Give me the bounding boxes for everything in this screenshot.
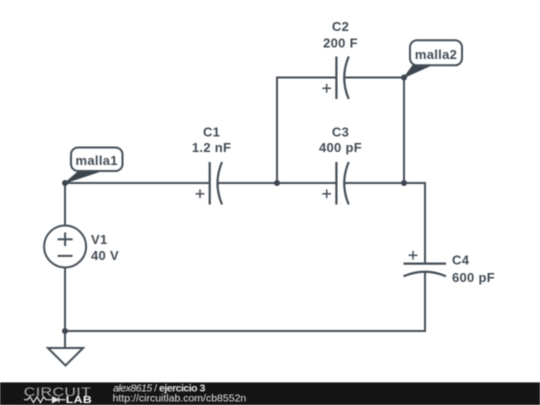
flag malla2 tail <box>404 65 431 77</box>
svg-text:C4: C4 <box>452 252 470 267</box>
wire bottom horizontal <box>65 330 426 332</box>
svg-text:C1: C1 <box>203 125 220 140</box>
node junction C1/C3 <box>274 180 280 186</box>
wire top-right segment (C2 right lead) <box>344 77 404 79</box>
footer logo resistor-diode <box>24 397 66 403</box>
flag malla1 tail <box>65 171 101 183</box>
node dot malla1 <box>62 180 68 186</box>
svg-text:C3: C3 <box>332 125 349 140</box>
wire C4 bottom lead to corner <box>424 272 426 332</box>
wire left vertical of top loop <box>276 77 278 184</box>
ground <box>48 348 83 366</box>
capacitor C2 <box>322 57 348 100</box>
footer bar <box>0 382 540 405</box>
wire C3 right lead to junction <box>344 182 404 184</box>
flag malla1 box <box>71 148 123 172</box>
wire right vertical to C4 top plate <box>424 182 426 264</box>
node ground junction <box>62 328 68 334</box>
voltage source V1 <box>44 226 86 268</box>
svg-text:V1: V1 <box>91 232 108 247</box>
wire right vertical of top loop <box>403 78 405 184</box>
svg-text:C2: C2 <box>332 19 349 34</box>
wire V1 bottom to ground node <box>64 268 66 332</box>
svg-text:1.2 nF: 1.2 nF <box>192 140 231 155</box>
svg-text:40 V: 40 V <box>91 248 119 263</box>
svg-text:malla1: malla1 <box>76 153 118 168</box>
wire ground stub <box>64 331 66 348</box>
svg-text:400 pF: 400 pF <box>319 140 362 155</box>
svg-text:LAB: LAB <box>66 395 92 405</box>
svg-text:200 F: 200 F <box>323 36 358 51</box>
node dot malla2 <box>401 75 407 81</box>
wire top-left segment (C2 left lead) <box>277 77 336 79</box>
wire malla1 node to C1 left plate <box>65 182 210 184</box>
capacitor C1 <box>196 162 222 205</box>
svg-text:600 pF: 600 pF <box>452 270 495 285</box>
wire C1 right lead to junction <box>218 182 277 184</box>
svg-text:malla2: malla2 <box>415 47 457 62</box>
wire junction to right corner <box>404 182 426 184</box>
wire malla1 node down to V1 <box>64 183 66 226</box>
flag malla2 box <box>410 40 462 65</box>
capacitor C3 <box>322 162 348 205</box>
node junction right <box>401 180 407 186</box>
svg-text:http://circuitlab.com/cb8552n: http://circuitlab.com/cb8552n <box>113 392 247 404</box>
wire junction to C3 left plate <box>277 182 336 184</box>
capacitor C4 <box>404 251 447 276</box>
